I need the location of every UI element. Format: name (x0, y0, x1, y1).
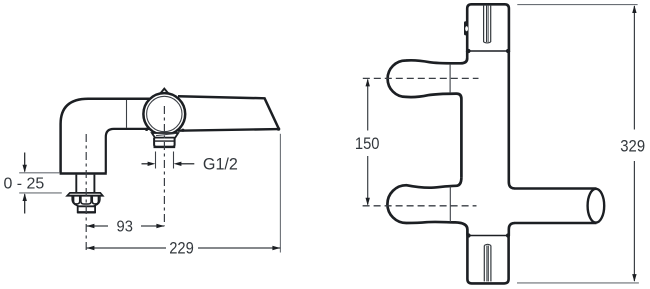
nut lower collar (78, 206, 95, 212)
svg-text:0 - 25: 0 - 25 (4, 176, 45, 193)
top knob outline (388, 58, 468, 177)
stripes top cap (484, 244, 491, 245)
bottom section outline (467, 236, 508, 284)
dim 0-25 lower arrow (24, 194, 26, 213)
spout tip extension line (279, 134, 281, 253)
body inner right edge and under-arm line (106, 129, 152, 173)
shank below body (75, 175, 77, 193)
top knob centerline dashed (363, 77, 479, 79)
valve body outer circle (143, 93, 185, 135)
nut facet cell 3 (92, 196, 98, 204)
mounting nut outer outline (72, 196, 100, 206)
outlet pipe bottom line (515, 222, 597, 225)
G1/2 left arrow (142, 163, 149, 165)
centerline through valve (dashed) (163, 106, 165, 226)
G1/2 tick left (155, 152, 157, 169)
stripes bottom cap (484, 41, 491, 44)
dim 329 bottom extension line (517, 282, 639, 284)
valve body inner circle (147, 96, 182, 131)
G1/2 threaded stub body (154, 138, 175, 147)
junction dot at spout tip (277, 127, 281, 131)
dim 0-25 upper arrow (24, 153, 26, 172)
column left edge above top knob (466, 51, 469, 59)
dim 329 top extension line (517, 4, 637, 6)
column right edge below pipe (507, 229, 510, 236)
centerline through shank (dashed) (85, 134, 87, 252)
body bottom edge (60, 172, 107, 175)
outlet pipe top line (515, 187, 597, 190)
left tab on top section (464, 21, 468, 35)
svg-text:229: 229 (169, 240, 194, 258)
spout top line and end diagonal (178, 96, 279, 129)
adapter collar under valve (152, 133, 178, 138)
svg-text:93: 93 (117, 219, 133, 236)
top knob face line (449, 64, 451, 93)
nut collar bottom thick edge (77, 211, 95, 213)
G1/2 tick right (173, 152, 175, 169)
svg-text:150: 150 (355, 134, 380, 153)
junction dot arm-circle right (181, 129, 184, 132)
bottom knob outline (387, 177, 467, 235)
nut facet cell 1 (74, 196, 80, 204)
stub bottom thick edge (154, 146, 176, 148)
dim 229 line (86, 247, 166, 249)
dim 0-25 bottom extension line (19, 192, 62, 194)
valve top notch (160, 89, 168, 94)
dim 150 line upper segment (367, 80, 369, 131)
junction dot arm-circle left (145, 128, 148, 131)
dim 150 line lower segment (367, 156, 369, 205)
nut facet cell 2 (81, 196, 91, 204)
body face line (126, 100, 128, 128)
column right edge (507, 51, 510, 182)
divider end dots (466, 49, 470, 53)
spout body L-shaped outline (left leg + elbow + top arm) (61, 99, 152, 173)
stub mid line (154, 140, 175, 142)
top section outline (467, 4, 509, 52)
dim 329 line upper segment (633, 6, 635, 130)
bottom section stripes (483, 246, 485, 282)
bottom knob centerline dashed (363, 205, 477, 207)
top section stripes (483, 5, 485, 42)
top divider line (467, 50, 510, 52)
dim 93 line (86, 225, 108, 227)
pipe bottom corner (509, 223, 515, 229)
dim 0-25 top extension line (19, 172, 60, 174)
pipe top corner (509, 182, 515, 189)
svg-text:329: 329 (620, 137, 645, 156)
G1/2 right arrow (181, 163, 194, 165)
pipe end ellipse (588, 189, 605, 223)
bottom knob face line (449, 186, 451, 222)
dim 329 line lower segment (633, 161, 635, 281)
washer flange (67, 193, 103, 196)
spout bottom line (178, 129, 279, 131)
adapter collar bevel line (156, 134, 175, 136)
svg-text:G1/2: G1/2 (203, 154, 238, 173)
bottom divider line (467, 235, 510, 237)
